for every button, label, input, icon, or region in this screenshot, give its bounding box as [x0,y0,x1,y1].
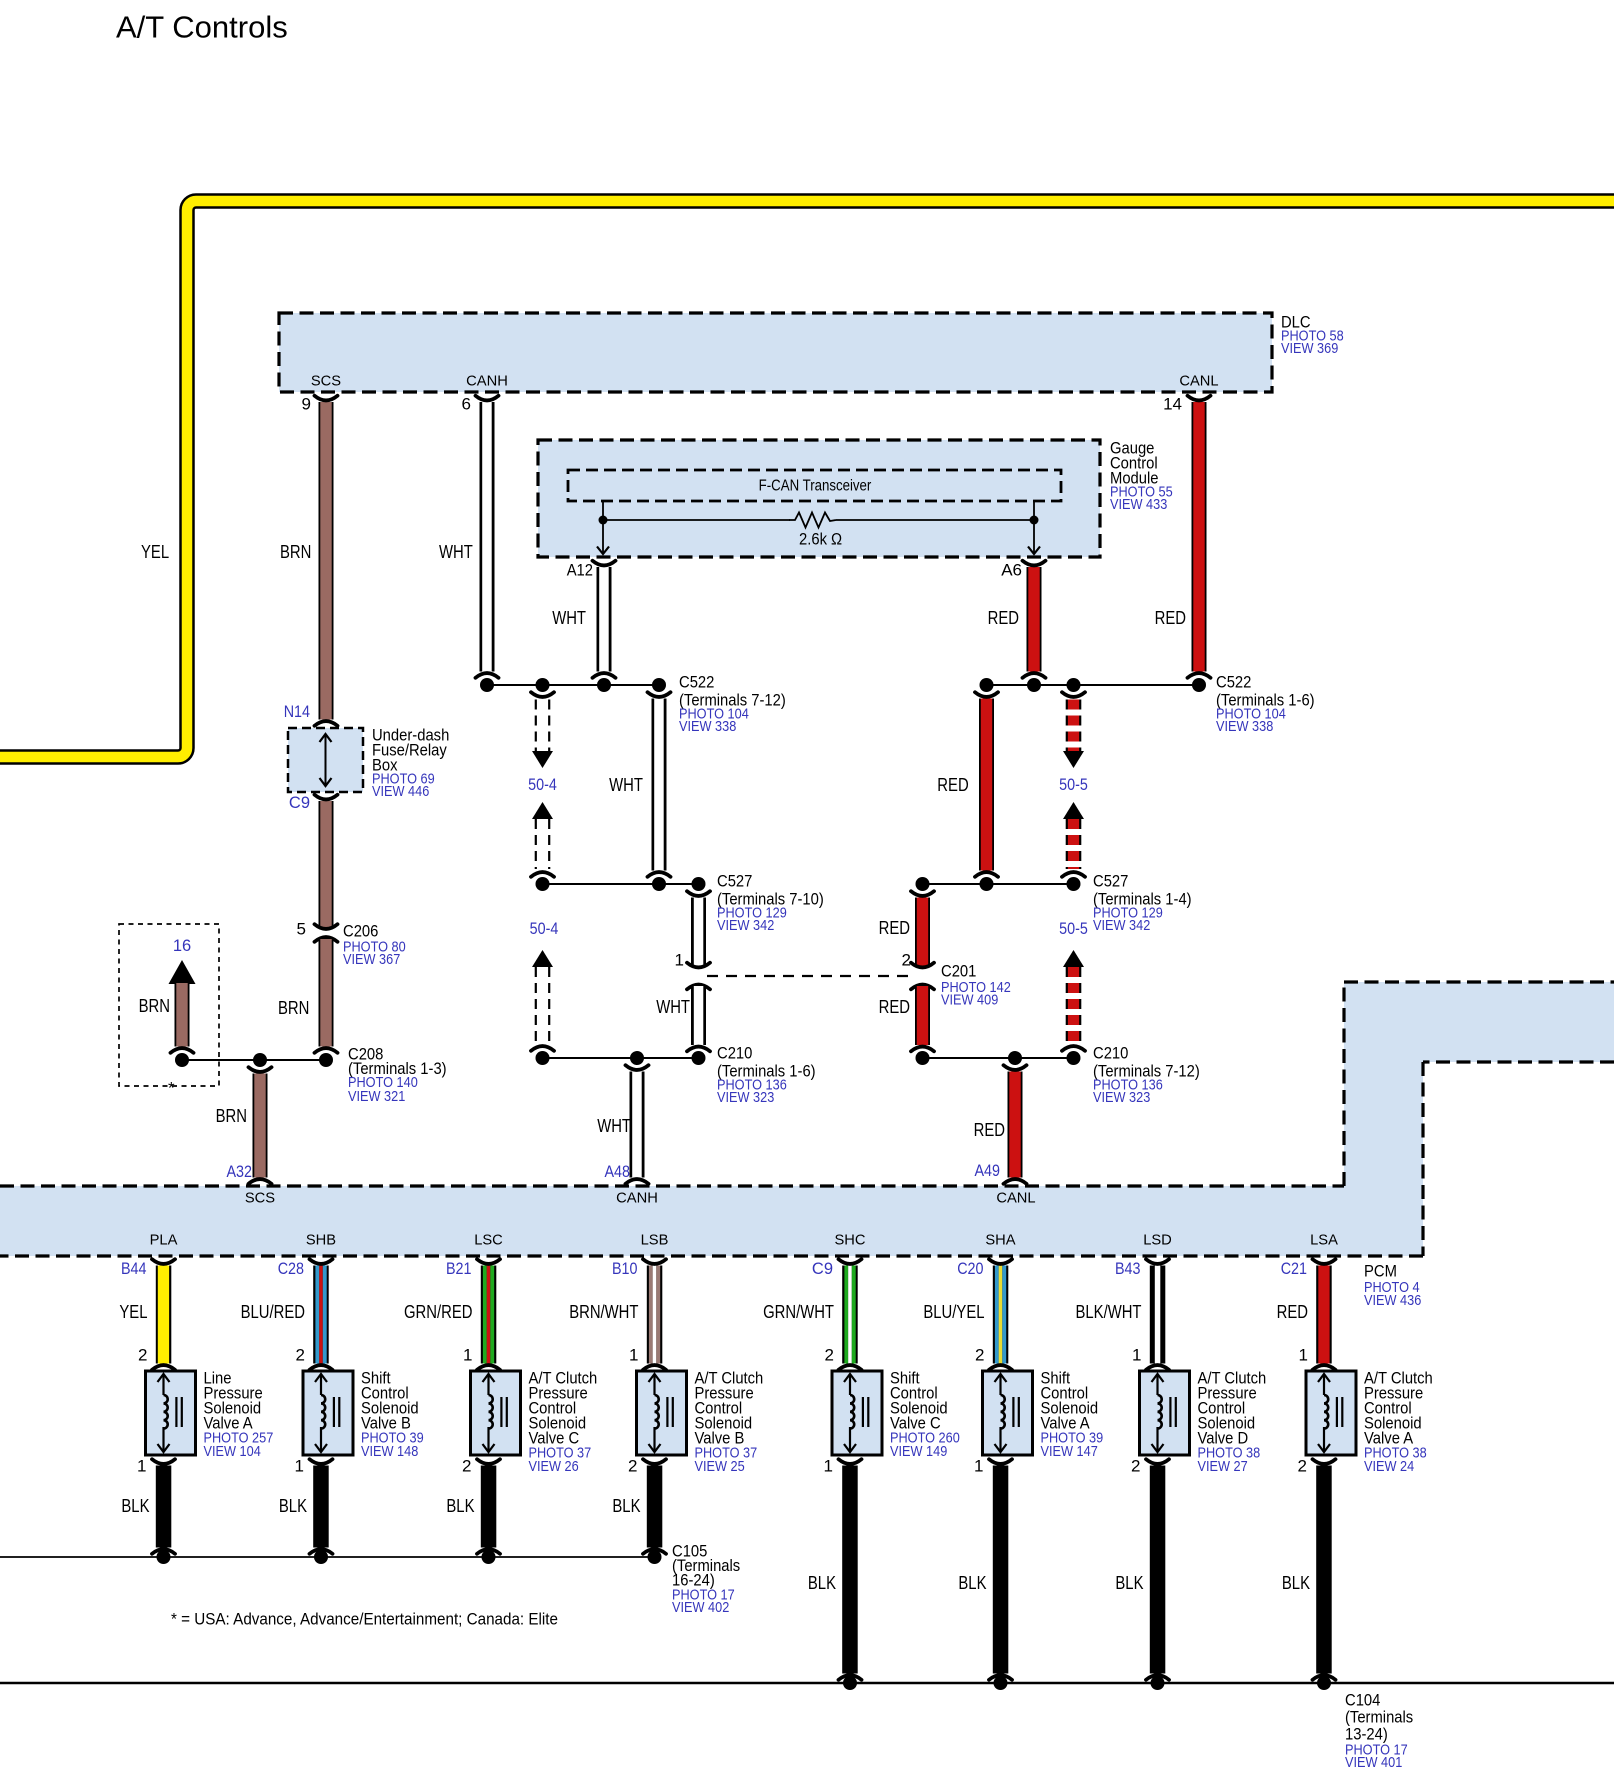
svg-text:VIEW 149: VIEW 149 [890,1444,947,1460]
svg-text:1: 1 [295,1457,304,1476]
svg-text:C522: C522 [1216,673,1251,692]
svg-text:BRN: BRN [280,542,311,562]
svg-text:WHT: WHT [597,1116,631,1136]
svg-text:C206: C206 [343,922,378,941]
svg-text:BRN: BRN [278,998,309,1018]
svg-text:1: 1 [1299,1346,1308,1365]
svg-text:VIEW 24: VIEW 24 [1364,1459,1414,1475]
svg-text:RED: RED [937,775,968,795]
svg-text:RED: RED [879,997,910,1017]
svg-text:C522: C522 [679,673,714,692]
svg-text:RED: RED [1277,1302,1308,1322]
svg-text:VIEW 409: VIEW 409 [941,993,998,1009]
svg-text:13-24): 13-24) [1345,1725,1388,1744]
svg-text:2: 2 [1298,1457,1307,1476]
svg-text:BRN: BRN [139,996,170,1016]
svg-text:9: 9 [302,395,311,414]
svg-text:PLA: PLA [150,1232,178,1249]
svg-text:2: 2 [628,1457,637,1476]
svg-text:SHA: SHA [985,1232,1015,1249]
svg-text:YEL: YEL [141,542,169,562]
svg-text:C20: C20 [957,1260,983,1278]
svg-text:SCS: SCS [245,1190,275,1207]
svg-text:B10: B10 [612,1260,638,1278]
svg-text:VIEW 323: VIEW 323 [717,1090,774,1106]
svg-text:BLK: BLK [808,1573,836,1593]
svg-text:*: * [168,1079,175,1098]
svg-text:VIEW 342: VIEW 342 [1093,918,1150,934]
svg-text:SHC: SHC [835,1232,866,1249]
svg-text:CANL: CANL [1179,373,1218,390]
svg-text:14: 14 [1163,395,1182,414]
svg-text:C9: C9 [812,1260,833,1278]
svg-text:CANL: CANL [996,1190,1035,1207]
svg-text:1: 1 [629,1346,638,1365]
svg-text:C28: C28 [278,1260,304,1278]
svg-text:VIEW 342: VIEW 342 [717,918,774,934]
svg-text:GRN/WHT: GRN/WHT [763,1302,834,1322]
svg-text:BLK: BLK [279,1496,307,1516]
svg-text:BLU/YEL: BLU/YEL [923,1302,984,1322]
svg-text:C210: C210 [1093,1044,1128,1063]
svg-text:VIEW 148: VIEW 148 [361,1444,418,1460]
svg-text:BRN: BRN [216,1106,247,1126]
svg-text:BLK: BLK [121,1496,149,1516]
svg-text:VIEW 338: VIEW 338 [679,719,736,735]
svg-text:N14: N14 [284,703,310,721]
svg-text:VIEW 323: VIEW 323 [1093,1090,1150,1106]
svg-text:BLK: BLK [612,1496,640,1516]
svg-text:VIEW 338: VIEW 338 [1216,719,1273,735]
svg-text:A32: A32 [227,1163,253,1181]
svg-text:2: 2 [975,1346,984,1365]
svg-text:VIEW 27: VIEW 27 [1198,1459,1248,1475]
svg-text:BLK: BLK [446,1496,474,1516]
svg-text:BLK: BLK [1115,1573,1143,1593]
svg-text:VIEW 401: VIEW 401 [1345,1755,1402,1771]
svg-text:2: 2 [825,1346,834,1365]
svg-text:C9: C9 [289,794,310,812]
svg-text:BLK: BLK [958,1573,986,1593]
svg-text:A6: A6 [1001,561,1022,580]
svg-text:WHT: WHT [609,775,643,795]
svg-text:VIEW 321: VIEW 321 [348,1089,405,1105]
svg-text:2: 2 [462,1457,471,1476]
svg-text:C201: C201 [941,962,976,981]
svg-text:BRN/WHT: BRN/WHT [569,1302,638,1322]
svg-text:A12: A12 [567,561,593,580]
svg-text:C21: C21 [1281,1260,1307,1278]
svg-text:C527: C527 [1093,872,1128,891]
svg-text:50-5: 50-5 [1059,920,1088,938]
svg-text:1: 1 [1132,1346,1141,1365]
svg-text:1: 1 [824,1457,833,1476]
svg-text:LSB: LSB [641,1232,669,1249]
svg-text:YEL: YEL [119,1302,147,1322]
svg-text:50-5: 50-5 [1059,776,1088,794]
svg-text:RED: RED [1155,608,1186,628]
svg-text:50-4: 50-4 [528,776,557,794]
svg-text:RED: RED [879,918,910,938]
svg-text:VIEW 26: VIEW 26 [529,1459,579,1475]
svg-text:RED: RED [988,608,1019,628]
svg-text:BLK/WHT: BLK/WHT [1076,1302,1142,1322]
svg-text:C210: C210 [717,1044,752,1063]
svg-text:LSA: LSA [1310,1232,1338,1249]
svg-text:PCM: PCM [1364,1262,1397,1281]
svg-text:1: 1 [463,1346,472,1365]
svg-text:WHT: WHT [439,542,473,562]
svg-text:2.6k: 2.6k [799,530,827,549]
svg-text:B21: B21 [446,1260,472,1278]
svg-text:LSD: LSD [1143,1232,1172,1249]
svg-text:* = USA: Advance, Advance/Ente: * = USA: Advance, Advance/Entertainment;… [171,1610,558,1629]
svg-text:16: 16 [173,937,191,955]
svg-text:5: 5 [297,920,306,939]
svg-text:2: 2 [1131,1457,1140,1476]
svg-text:6: 6 [462,395,471,414]
svg-text:VIEW 402: VIEW 402 [672,1600,729,1616]
svg-text:Ω: Ω [831,530,842,549]
svg-text:GRN/RED: GRN/RED [404,1302,473,1322]
svg-text:VIEW 433: VIEW 433 [1110,497,1167,513]
svg-text:A/T Controls: A/T Controls [116,10,288,45]
svg-text:VIEW 369: VIEW 369 [1281,341,1338,357]
svg-text:A49: A49 [975,1162,1001,1180]
svg-text:SCS: SCS [311,373,341,390]
svg-text:SHB: SHB [306,1232,336,1249]
svg-text:1: 1 [675,951,684,970]
svg-text:50-4: 50-4 [530,920,559,938]
svg-text:RED: RED [974,1120,1005,1140]
svg-text:2: 2 [296,1346,305,1365]
svg-text:BLU/RED: BLU/RED [241,1302,305,1322]
svg-text:1: 1 [137,1457,146,1476]
svg-text:BLK: BLK [1282,1573,1310,1593]
svg-text:B44: B44 [121,1260,147,1278]
svg-text:2: 2 [902,951,911,970]
svg-text:A48: A48 [605,1163,631,1181]
svg-text:2: 2 [138,1346,147,1365]
svg-text:WHT: WHT [656,997,690,1017]
svg-text:C527: C527 [717,872,752,891]
svg-text:VIEW 25: VIEW 25 [695,1459,745,1475]
svg-text:WHT: WHT [552,608,586,628]
svg-text:LSC: LSC [474,1232,503,1249]
svg-text:VIEW 104: VIEW 104 [204,1444,261,1460]
svg-text:1: 1 [974,1457,983,1476]
svg-text:CANH: CANH [466,373,508,390]
svg-text:VIEW 367: VIEW 367 [343,952,400,968]
svg-text:VIEW 436: VIEW 436 [1364,1293,1421,1309]
svg-text:VIEW 147: VIEW 147 [1041,1444,1098,1460]
svg-text:CANH: CANH [616,1190,658,1207]
svg-text:VIEW 446: VIEW 446 [372,784,429,800]
svg-text:F-CAN Transceiver: F-CAN Transceiver [759,478,872,495]
svg-text:B43: B43 [1115,1260,1141,1278]
